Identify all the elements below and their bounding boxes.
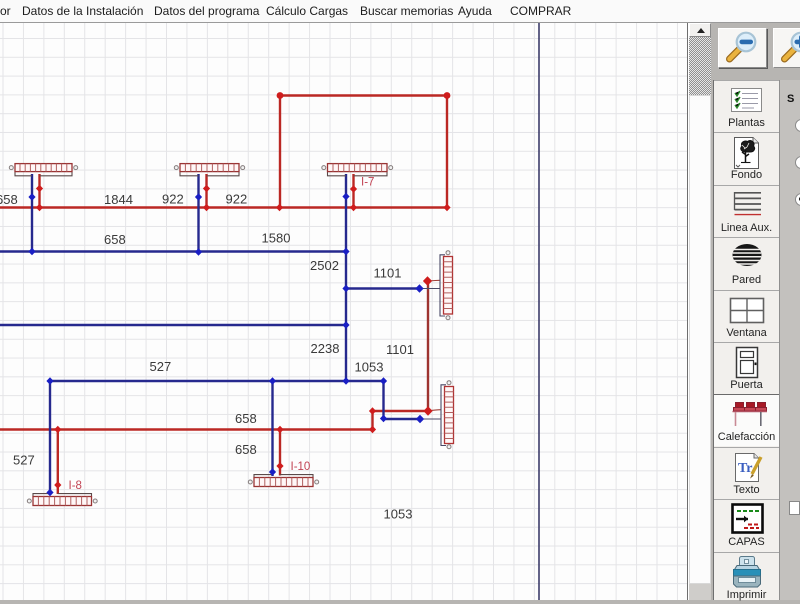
node blue I-10 valve <box>269 468 276 476</box>
node red R1 junction <box>36 204 43 212</box>
node red VR1 connection <box>423 276 432 286</box>
right sidebar <box>711 23 800 600</box>
radio option 3 selected <box>795 193 800 206</box>
tool button Plantas <box>714 80 779 132</box>
wire red supply main lower <box>0 428 373 430</box>
wire blue thin link to VR1 <box>420 288 441 290</box>
svg-text:922: 922 <box>226 192 248 207</box>
node blue lower corner <box>380 377 387 385</box>
svg-text:1580: 1580 <box>262 231 291 246</box>
svg-text:2238: 2238 <box>311 341 340 356</box>
tool button Imprimir <box>714 552 779 604</box>
node red main end corner <box>443 204 450 212</box>
tool button Pared <box>714 237 779 289</box>
wire blue stub radiator R2 <box>197 174 199 252</box>
wire blue return main upper <box>0 250 346 252</box>
tool button Puerta <box>714 342 779 394</box>
tool button CAPAS <box>714 499 779 551</box>
wire red stub radiator R1 <box>38 174 40 208</box>
wire red link to vertical radiator VR2 <box>428 409 441 412</box>
wire red top loop left vertical <box>279 96 281 208</box>
vertical scrollbar <box>687 23 712 600</box>
node red R2 valve <box>203 185 210 193</box>
tool button Calefaccion (active) <box>714 394 779 446</box>
node red R1 valve <box>36 185 43 193</box>
svg-text:1101: 1101 <box>374 266 402 281</box>
node red I-10 junction <box>276 426 283 434</box>
radiator I-10 <box>248 475 318 487</box>
node blue R1 valve <box>28 193 35 201</box>
tool button Ventana <box>714 290 779 342</box>
wire red stub radiator I-10 <box>279 430 281 476</box>
svg-text:658: 658 <box>104 232 126 247</box>
node blue I-8 branch <box>46 377 53 385</box>
svg-text:Tr: Tr <box>738 461 753 476</box>
wire red mid link vertical <box>371 411 373 430</box>
svg-text:658: 658 <box>235 411 257 426</box>
svg-text:1053: 1053 <box>355 360 384 375</box>
wire red link to vertical radiator VR1 <box>428 279 440 282</box>
menu bar <box>0 0 800 22</box>
node red VR2 connection <box>423 406 432 416</box>
wire red top loop right vertical <box>446 96 448 208</box>
node red I-7 valve <box>350 185 357 193</box>
node blue lower corner 2 <box>380 415 387 423</box>
node red I-10 valve <box>276 462 283 470</box>
wire blue stub radiator R1 <box>31 174 33 252</box>
svg-text:1844: 1844 <box>104 192 133 207</box>
svg-text:I-7: I-7 <box>361 177 374 189</box>
tool button Linea Aux. <box>714 185 779 237</box>
node red I-8 valve <box>54 481 61 489</box>
wall line (navy vertical) <box>538 23 540 600</box>
radiator VR1 vertical <box>440 251 453 320</box>
input box sliver <box>789 501 800 515</box>
wire red stub radiator I-8 <box>57 430 59 495</box>
wire red riser right <box>427 281 429 411</box>
zoom in button (clipped) <box>773 28 800 68</box>
node blue R2 valve <box>195 193 202 201</box>
wire red top loop horizontal <box>280 94 447 96</box>
option group letter S <box>787 93 794 105</box>
radiator VR2 vertical <box>441 381 454 449</box>
wire blue return main middle <box>0 324 346 326</box>
wire blue return main lower <box>50 380 384 382</box>
node red I-8 junction <box>54 426 61 434</box>
wire blue thin link to VR2 <box>420 418 441 420</box>
node blue trunk mid junction <box>342 321 349 329</box>
wire blue stub radiator I-10 <box>271 381 273 476</box>
node blue I-10 branch <box>269 377 276 385</box>
node blue trunk top corner <box>342 248 349 256</box>
radiator R1 <box>9 164 77 176</box>
wire red stub radiator R2 <box>205 174 207 208</box>
radio option 2 <box>795 156 800 169</box>
svg-text:527: 527 <box>150 359 172 374</box>
wire red mid link horizontal <box>373 410 429 412</box>
wire blue stub radiator I-8 <box>49 381 51 495</box>
radio option 1 <box>795 119 800 132</box>
wire red supply main upper <box>0 206 447 208</box>
wire blue branch to VR1 <box>346 287 420 289</box>
node red riser junction upper main <box>276 204 283 212</box>
wire blue branch to VR2 <box>384 418 421 420</box>
node blue I-8 valve <box>46 489 53 497</box>
node blue I-7 valve <box>342 193 349 201</box>
node blue trunk branch VR1 <box>342 285 349 293</box>
radiator R2 <box>174 164 244 176</box>
tool button Texto <box>714 447 779 499</box>
node blue VR1 connection <box>415 284 423 293</box>
svg-text:658: 658 <box>0 192 18 207</box>
node red I-7 junction <box>350 204 357 212</box>
node red top-right corner <box>444 92 451 99</box>
zoom out button <box>718 28 767 68</box>
svg-text:527: 527 <box>13 453 35 468</box>
node blue R1 junction <box>28 248 35 256</box>
radiator I-7 <box>322 164 393 176</box>
radiator I-8 <box>27 494 97 506</box>
node blue VR2 connection <box>416 415 424 424</box>
svg-text:2502: 2502 <box>310 258 339 273</box>
wire blue trunk from radiator I-7 <box>345 174 347 381</box>
svg-text:I-10: I-10 <box>291 461 311 473</box>
wire blue corner vertical <box>382 381 384 419</box>
node blue trunk bottom junction <box>342 377 349 385</box>
svg-text:1101: 1101 <box>386 342 414 357</box>
node red mid corner <box>369 407 376 415</box>
svg-text:922: 922 <box>162 192 184 207</box>
svg-text:1053: 1053 <box>384 507 413 522</box>
node blue R2 junction <box>195 248 202 256</box>
node red lower main end <box>369 426 376 434</box>
node red R2 junction <box>203 204 210 212</box>
tool button Fondo <box>714 132 779 184</box>
svg-text:658: 658 <box>235 442 257 457</box>
wire red stub radiator I-7 <box>352 174 354 208</box>
node red top-left corner <box>277 92 284 99</box>
svg-text:I-8: I-8 <box>69 480 82 492</box>
